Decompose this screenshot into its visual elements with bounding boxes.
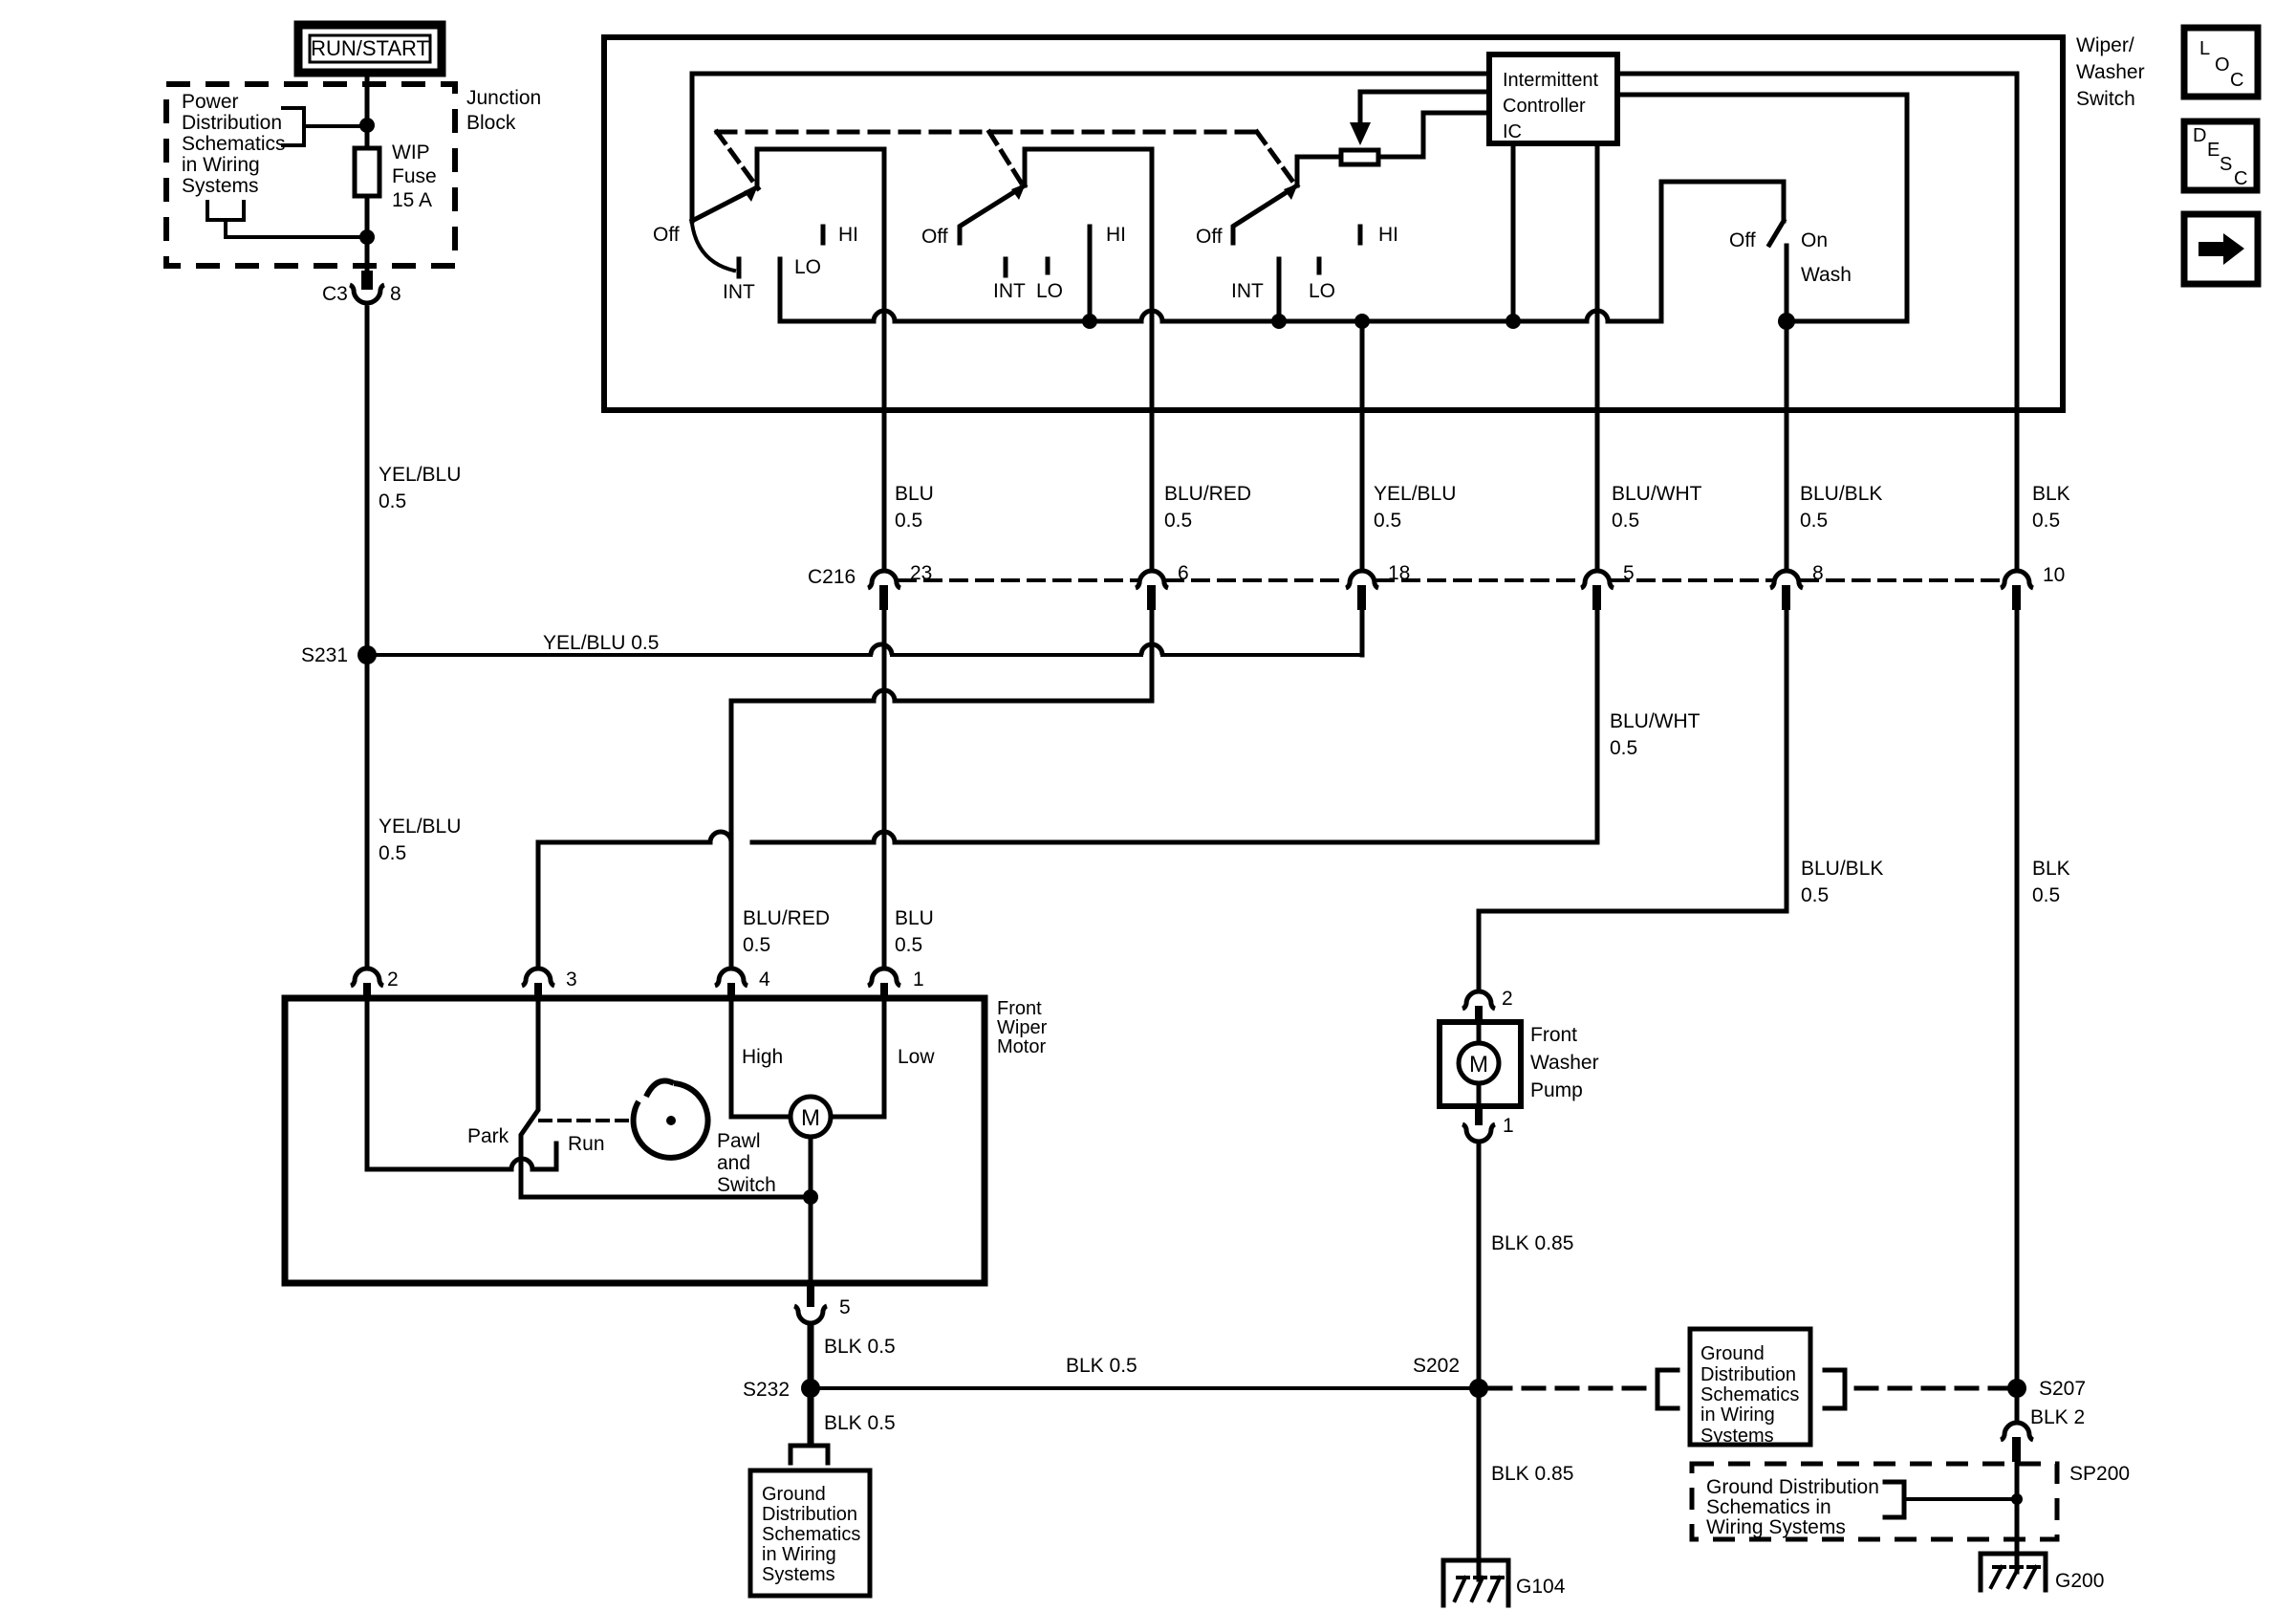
wire pin 2 to Run contact <box>367 1001 556 1169</box>
front wiper motor label <box>997 998 1048 1057</box>
dashed wire ground note to S207 <box>1856 1386 2005 1391</box>
svg-text:Pump: Pump <box>1530 1079 1583 1101</box>
svg-text:INT: INT <box>993 280 1026 302</box>
svg-text:in Wiring: in Wiring <box>762 1544 836 1565</box>
svg-text:in Wiring: in Wiring <box>182 154 260 176</box>
switch 3 Off tick <box>1231 228 1236 243</box>
off-page bracket below S232 <box>791 1446 828 1463</box>
svg-text:BLU/RED: BLU/RED <box>743 907 830 929</box>
svg-text:Off: Off <box>921 226 948 248</box>
motor connector pin 3 <box>522 969 577 1001</box>
svg-text:Distribution: Distribution <box>762 1504 857 1525</box>
splice S232 <box>743 1379 820 1401</box>
svg-text:Wiper/: Wiper/ <box>2076 34 2134 56</box>
svg-text:BLU/WHT: BLU/WHT <box>1610 710 1700 732</box>
wire BLU/WHT pin 5 down and over to motor pin 3 <box>538 610 1597 966</box>
svg-text:1: 1 <box>913 969 924 991</box>
arrow icon box <box>2184 214 2258 284</box>
svg-text:Schematics in: Schematics in <box>1706 1496 1831 1518</box>
wire BLU pin 23 down to motor pin 1 <box>882 610 887 966</box>
svg-text:0.5: 0.5 <box>1800 510 1828 532</box>
svg-text:0.5: 0.5 <box>379 842 406 864</box>
svg-text:Low: Low <box>898 1046 935 1068</box>
svg-text:2: 2 <box>1502 988 1513 1010</box>
wire BLU/BLK pin 8 down to washer pump <box>1479 610 1787 988</box>
splice S202 <box>1413 1355 1488 1398</box>
svg-text:INT: INT <box>723 281 755 303</box>
wire IC to arrow <box>1360 92 1489 124</box>
svg-text:Systems: Systems <box>1700 1426 1774 1447</box>
svg-text:Ground: Ground <box>762 1484 826 1505</box>
node junction above fuse <box>359 118 375 133</box>
connector C216 <box>808 562 2065 610</box>
node HI to bus <box>1082 314 1097 329</box>
svg-text:INT: INT <box>1231 280 1264 302</box>
wire BLU/RED pin 6 down and over to motor pin 4 <box>731 610 1152 966</box>
switch 3 INT LO labels <box>1231 280 1335 302</box>
node SP200 tap <box>2011 1493 2023 1505</box>
wire top rail from switch 1 to right side <box>692 74 2017 221</box>
svg-text:15 A: 15 A <box>392 189 432 211</box>
svg-text:LO: LO <box>1309 280 1335 302</box>
svg-text:IC: IC <box>1503 121 1522 142</box>
wire S207 to SP200 connector <box>2015 1398 2020 1423</box>
switch 1 step bridge to HI column <box>757 149 884 187</box>
svg-text:0.5: 0.5 <box>2032 884 2060 906</box>
connector above SP200 <box>2001 1423 2033 1462</box>
wire IC left pin to bus <box>1511 142 1516 321</box>
svg-text:0.5: 0.5 <box>895 510 922 532</box>
svg-text:Block: Block <box>466 112 516 134</box>
svg-text:BLK 2: BLK 2 <box>2030 1406 2085 1428</box>
switch 2 LO tick <box>1046 259 1051 272</box>
node INT to bus <box>1271 314 1287 329</box>
bracket from note to fuse wire <box>283 108 367 145</box>
washer switch arm <box>1769 221 1784 245</box>
arrowhead pointing to resistor <box>1350 122 1371 145</box>
svg-text:S207: S207 <box>2039 1378 2086 1400</box>
junction block label <box>466 87 541 134</box>
svg-text:BLK 0.5: BLK 0.5 <box>824 1336 896 1358</box>
svg-text:S: S <box>2220 154 2232 175</box>
svg-text:0.5: 0.5 <box>895 934 922 956</box>
resistor (intermittent delay) <box>1341 150 1378 164</box>
svg-text:BLK: BLK <box>2032 483 2070 505</box>
motor M symbol <box>791 1097 831 1137</box>
wire motor to pin 5 <box>809 1137 813 1283</box>
svg-text:in Wiring: in Wiring <box>1700 1404 1775 1426</box>
svg-text:Junction: Junction <box>466 87 541 109</box>
svg-text:Ground Distribution: Ground Distribution <box>1706 1476 1879 1498</box>
motor connector pin 4 <box>715 969 770 1001</box>
wiper/washer switch outer box <box>604 37 2063 410</box>
svg-text:BLU/BLK: BLU/BLK <box>1800 483 1882 505</box>
switch 2 HI tick <box>1088 227 1093 243</box>
svg-text:Intermittent: Intermittent <box>1503 70 1598 91</box>
svg-text:8: 8 <box>390 283 401 305</box>
svg-text:SP200: SP200 <box>2069 1463 2130 1485</box>
svg-text:Motor: Motor <box>997 1036 1046 1057</box>
svg-text:C: C <box>2230 70 2243 91</box>
switch 1 HI tick <box>821 227 826 243</box>
front washer pump box <box>1440 1022 1521 1106</box>
svg-text:WIP: WIP <box>392 142 430 163</box>
wire label YEL/BLU 0.5 lower left <box>379 816 461 864</box>
svg-text:YEL/BLU: YEL/BLU <box>379 816 461 838</box>
svg-text:Controller: Controller <box>1503 96 1586 117</box>
intermittent controller IC box <box>1489 54 1617 143</box>
switch 3 riser to resistor <box>1297 157 1341 185</box>
junction block dashed border <box>166 84 455 266</box>
washer switch On contact wire <box>1785 246 1789 321</box>
pump M symbol <box>1459 1043 1499 1083</box>
wire bracket to fuse wire <box>226 235 367 239</box>
dashed wire S202 to ground note <box>1490 1386 1656 1391</box>
wire S231 to pin 18 drop with hops <box>367 653 1362 657</box>
svg-text:Systems: Systems <box>762 1564 835 1585</box>
motor connector pin 2 <box>351 969 399 1001</box>
wire RUN/START to fuse <box>365 73 370 148</box>
svg-text:BLK 0.85: BLK 0.85 <box>1491 1232 1573 1254</box>
wire pin 4 to motor High <box>731 1001 791 1117</box>
svg-text:Schematics: Schematics <box>182 133 286 155</box>
svg-text:On: On <box>1801 229 1828 251</box>
lower bracket symbol in junction block <box>207 202 244 237</box>
svg-text:Off: Off <box>1729 229 1756 251</box>
switch 3 INT wire to bus <box>1277 279 1282 321</box>
wire S232 down to ground note <box>808 1398 814 1444</box>
svg-text:0.5: 0.5 <box>1610 737 1637 759</box>
svg-text:S202: S202 <box>1413 1355 1460 1377</box>
wire label BLU/RED 0.5 at motor <box>743 907 830 956</box>
svg-text:HI: HI <box>1106 224 1126 246</box>
front washer pump connector pin 1 <box>1462 1106 1514 1142</box>
svg-text:C: C <box>2234 168 2247 189</box>
wire label BLU/BLK 0.5 mid <box>1801 858 1883 906</box>
svg-text:2: 2 <box>387 969 399 991</box>
svg-text:0.5: 0.5 <box>379 490 406 512</box>
svg-text:Switch: Switch <box>2076 88 2135 110</box>
switch common bus <box>780 182 1784 321</box>
svg-text:Power: Power <box>182 91 239 113</box>
node washer junction <box>1778 313 1795 330</box>
splice S231 <box>301 644 377 666</box>
bracket in splice pack <box>1885 1482 1904 1517</box>
svg-text:Off: Off <box>653 224 680 246</box>
svg-text:10: 10 <box>2043 564 2065 586</box>
svg-text:0.5: 0.5 <box>2032 510 2060 532</box>
wire bracket to ground wire <box>1904 1497 2012 1501</box>
node park wire to motor return <box>803 1189 818 1205</box>
wire BLU/BLK drop to C216 pin 8 <box>1785 330 1789 567</box>
svg-text:0.5: 0.5 <box>743 934 770 956</box>
switch 1 LO tick and wire to bus <box>778 259 783 321</box>
node bus to IC left pin <box>1505 314 1521 329</box>
svg-text:RUN/START: RUN/START <box>311 36 429 60</box>
svg-text:High: High <box>742 1046 783 1068</box>
svg-text:BLU/RED: BLU/RED <box>1164 483 1251 505</box>
svg-text:HI: HI <box>838 224 858 246</box>
svg-text:0.5: 0.5 <box>1374 510 1401 532</box>
svg-text:BLK: BLK <box>2032 858 2070 880</box>
wire pump to S202 <box>1477 1142 1482 1380</box>
svg-text:YEL/BLU: YEL/BLU <box>379 464 461 486</box>
svg-text:L: L <box>2199 38 2210 59</box>
wire washer to IC right side <box>1617 95 1907 321</box>
wire labels row below switch box <box>895 483 934 532</box>
wire label BLK 0.5 mid <box>2032 858 2070 906</box>
svg-text:Wiper: Wiper <box>997 1017 1048 1038</box>
svg-text:Ground: Ground <box>1700 1343 1765 1364</box>
fuse label <box>392 142 437 211</box>
switch 3 INT tick <box>1277 259 1282 275</box>
wire pin 1 to motor Low <box>831 1001 884 1117</box>
wire label BLU/WHT 0.5 mid <box>1610 710 1700 759</box>
dashed diagonal to switch 1 <box>717 132 758 188</box>
svg-text:BLK 0.5: BLK 0.5 <box>1066 1355 1137 1377</box>
wire IC right pin through bus to C216 pin 5 <box>1595 142 1600 567</box>
pawl cam <box>634 1080 708 1157</box>
svg-text:S232: S232 <box>743 1379 790 1401</box>
SP200 dashed splice pack box <box>1692 1464 2057 1539</box>
fuse WIP 15 A <box>355 148 379 196</box>
washer switch Off pivot stub <box>1782 182 1787 221</box>
svg-text:D: D <box>2193 125 2206 146</box>
svg-text:4: 4 <box>759 969 770 991</box>
dashed control line <box>717 130 1257 135</box>
svg-text:and: and <box>717 1152 750 1174</box>
front wiper motor box <box>285 998 985 1283</box>
splice S207 <box>2007 1378 2086 1400</box>
ground distribution note box bottom middle <box>1690 1329 1810 1447</box>
wire BLU/RED drop from switch 2 to C216 pin 6 <box>1150 149 1155 567</box>
svg-text:Fuse: Fuse <box>392 165 437 187</box>
connector C3 pin 8 <box>322 271 401 305</box>
svg-text:Systems: Systems <box>182 175 259 197</box>
wire YEL/BLU drop to C216 pin 18 <box>1360 321 1365 567</box>
wire BLK pin 10 down to S207 <box>2015 610 2020 1380</box>
svg-text:YEL/BLU: YEL/BLU <box>1374 483 1456 505</box>
dashed link arm to cam <box>540 1119 632 1122</box>
front washer pump connector pin 2 <box>1462 988 1513 1024</box>
svg-text:Front: Front <box>997 998 1042 1019</box>
svg-text:C216: C216 <box>808 566 856 588</box>
switch 2 step bridge <box>1025 149 1152 185</box>
wire BLU drop from switch 1 to C216 pin 23 <box>882 149 887 567</box>
svg-text:M: M <box>1469 1052 1488 1078</box>
wire connector to ground G200 <box>2015 1462 2020 1572</box>
svg-text:YEL/BLU 0.5: YEL/BLU 0.5 <box>543 632 659 654</box>
svg-text:Front: Front <box>1530 1024 1577 1046</box>
svg-text:BLK 0.85: BLK 0.85 <box>1491 1463 1573 1485</box>
wire S202 to ground G104 <box>1477 1398 1482 1579</box>
svg-text:Distribution: Distribution <box>182 112 282 134</box>
motor connector pin 5 <box>794 1283 851 1323</box>
node bus to YEL/BLU drop <box>1354 314 1370 329</box>
LOC icon box <box>2184 28 2258 97</box>
svg-text:LO: LO <box>1036 280 1063 302</box>
svg-text:Park: Park <box>467 1125 509 1147</box>
wire S232 to S202 <box>811 1386 1479 1390</box>
ground G200 <box>1981 1554 2104 1592</box>
svg-text:Washer: Washer <box>1530 1052 1599 1074</box>
switch 3 LO tick <box>1317 259 1322 272</box>
wire resistor to IC <box>1378 113 1489 157</box>
svg-text:1: 1 <box>1503 1115 1514 1137</box>
node junction below fuse <box>359 229 375 245</box>
wire C3 down to S231 <box>365 308 370 646</box>
wire S231 down to motor pin 2 <box>365 664 370 966</box>
motor connector pin 1 <box>868 969 924 1001</box>
wire label YEL/BLU 0.5 upper left <box>379 464 461 512</box>
svg-text:O: O <box>2215 54 2230 76</box>
switch 2 Off tick <box>958 228 963 243</box>
switch 2 INT LO labels <box>993 280 1063 302</box>
switch 3 HI tick <box>1358 227 1363 243</box>
svg-text:0.5: 0.5 <box>1612 510 1639 532</box>
wire BLK vertical right side down to C216 pin 10 <box>2015 74 2020 567</box>
svg-text:BLU: BLU <box>895 483 934 505</box>
dashed diagonal to switch 3 <box>1257 132 1297 187</box>
wire pin 3 to park arm <box>521 1001 811 1197</box>
svg-text:Wiring Systems: Wiring Systems <box>1706 1516 1846 1538</box>
svg-text:Off: Off <box>1196 226 1223 248</box>
ground distribution note text in splice pack <box>1706 1476 1879 1538</box>
switch 3 wiper arm <box>1234 184 1298 226</box>
RUN/START power feed box <box>298 25 442 73</box>
svg-text:Switch: Switch <box>717 1174 776 1196</box>
wire YEL/BLU pin 18 down to S231 wire <box>1360 610 1365 655</box>
wire label BLU 0.5 at motor <box>895 907 934 956</box>
svg-text:E: E <box>2207 140 2220 161</box>
wire pin 5 to S232 <box>808 1324 814 1380</box>
svg-text:Distribution: Distribution <box>1700 1364 1796 1385</box>
svg-text:Schematics: Schematics <box>1700 1384 1799 1405</box>
wire through pump <box>1477 1024 1482 1106</box>
switch 1 INT tick <box>737 259 742 276</box>
svg-text:BLU/WHT: BLU/WHT <box>1612 483 1702 505</box>
bus hops over drops <box>874 311 1608 321</box>
bracket right of ground note <box>1825 1370 1845 1408</box>
svg-text:0.5: 0.5 <box>1801 884 1829 906</box>
svg-text:BLU/BLK: BLU/BLK <box>1801 858 1883 880</box>
power distribution schematics note <box>182 91 286 197</box>
svg-text:LO: LO <box>794 256 821 278</box>
dashed diagonal to switch 2 <box>989 132 1025 188</box>
front washer pump label <box>1530 1024 1599 1101</box>
DESC icon box <box>2184 121 2257 190</box>
svg-text:HI: HI <box>1378 224 1398 246</box>
svg-text:3: 3 <box>566 969 577 991</box>
wiper/washer switch label <box>2076 34 2145 110</box>
bracket left of ground note <box>1657 1370 1678 1408</box>
svg-text:Wash: Wash <box>1801 264 1852 286</box>
switch 2 HI wire to bus <box>1088 247 1093 321</box>
svg-text:5: 5 <box>839 1296 851 1318</box>
svg-text:G104: G104 <box>1516 1576 1566 1598</box>
switch 2 INT tick <box>1004 259 1008 275</box>
pawl and switch label <box>717 1130 776 1196</box>
switch 1 wiper arm <box>692 185 758 221</box>
svg-text:Washer: Washer <box>2076 61 2145 83</box>
svg-text:M: M <box>801 1105 820 1131</box>
svg-text:Pawl: Pawl <box>717 1130 761 1152</box>
switch 2 wiper arm <box>961 184 1026 226</box>
ground G104 <box>1443 1560 1566 1605</box>
svg-text:Schematics: Schematics <box>762 1524 860 1545</box>
svg-text:BLK 0.5: BLK 0.5 <box>824 1412 896 1434</box>
ground distribution note box bottom left <box>750 1470 870 1596</box>
svg-text:S231: S231 <box>301 644 348 666</box>
svg-text:C3: C3 <box>322 283 348 305</box>
svg-text:0.5: 0.5 <box>1164 510 1192 532</box>
svg-text:Run: Run <box>568 1133 605 1155</box>
svg-text:BLU: BLU <box>895 907 934 929</box>
wire fuse down to C3 <box>365 196 370 271</box>
svg-text:G200: G200 <box>2055 1570 2104 1592</box>
switch 1 INT contact curve <box>692 224 734 271</box>
